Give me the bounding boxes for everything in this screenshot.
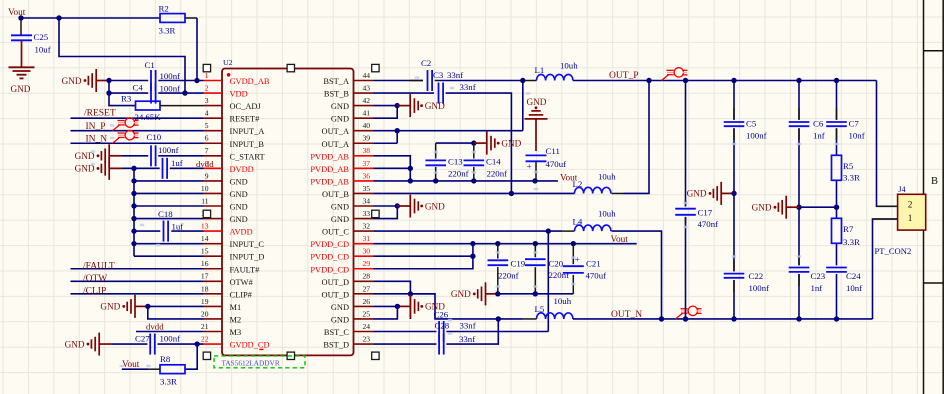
svg-text:GND: GND [62, 76, 82, 86]
capacitor C26 [434, 309, 449, 342]
wire IN_N row6 [71, 142, 204, 144]
pin 19 M1 left [201, 297, 241, 312]
pin 36 PVDD_AB right [310, 171, 373, 186]
inductor L1 [535, 65, 573, 81]
svg-text:GND: GND [331, 215, 349, 224]
svg-text:33nf: 33nf [459, 334, 475, 344]
svg-text:GVDD_CD: GVDD_CD [230, 341, 270, 350]
pin 5 INPUT_A left [204, 121, 265, 136]
wire OUT_B row to L2 [374, 192, 575, 194]
junction BST_B joins OUT_B [509, 191, 514, 196]
resistor R7 [832, 218, 854, 243]
svg-text:R3: R3 [121, 94, 132, 104]
directive on IN_N [113, 130, 139, 143]
svg-text:C4: C4 [133, 83, 144, 93]
endpoint marks [91, 76, 839, 367]
pin 10 GND left [201, 184, 248, 199]
pin 30 PVDD_CD right [310, 247, 373, 262]
capacitor C4 [133, 83, 156, 104]
pin 40 OUT_A right [322, 121, 374, 136]
pin 29 PVDD_CD right [310, 259, 373, 274]
svg-text:30: 30 [363, 247, 371, 256]
svg-text:44: 44 [363, 71, 371, 80]
svg-text:100nf: 100nf [749, 283, 770, 293]
junction L1 input node [520, 78, 525, 83]
svg-text:38: 38 [363, 146, 371, 155]
wire Vout to R8 [148, 368, 160, 370]
wire column C7 R5 R7 C24 [836, 81, 838, 120]
svg-text:42: 42 [363, 96, 371, 105]
capacitor C11 polarized [526, 146, 560, 161]
svg-text:100nf: 100nf [160, 333, 181, 343]
svg-text:33nf: 33nf [460, 82, 476, 92]
svg-text:PVDD_CD: PVDD_CD [310, 265, 349, 274]
svg-text:INPUT_A: INPUT_A [230, 127, 265, 136]
directive on OUT_N [676, 306, 702, 319]
svg-text:32: 32 [363, 222, 371, 231]
svg-text:B: B [931, 176, 938, 187]
wire OUT_C to BST_C riser [547, 231, 549, 331]
wire OUT_N to connector J4 pin 1 [873, 219, 898, 319]
pin 1 lead of J4 [873, 218, 898, 220]
svg-text:C11: C11 [546, 146, 560, 156]
op-amp U2 TAS5612LADDVR body [222, 69, 354, 356]
svg-text:10nf: 10nf [846, 283, 862, 293]
wire CLIP row18 [71, 293, 204, 295]
pin 43 BST_B right [324, 83, 374, 98]
pin 9 GND left [204, 171, 248, 186]
inductor L5 [535, 304, 573, 319]
inductor L4 lead [562, 230, 575, 232]
svg-text:INPUT_C: INPUT_C [230, 240, 265, 249]
svg-text:3.3R: 3.3R [160, 377, 177, 387]
wire row15 INPUT_D [134, 255, 204, 257]
svg-text:27: 27 [363, 284, 371, 293]
wire gnd bus vertical left [133, 168, 135, 256]
svg-text:CLIP#: CLIP# [230, 290, 253, 299]
wire IN_P row5 [71, 130, 204, 132]
svg-text:GND: GND [100, 302, 120, 312]
connector J4 [898, 185, 926, 230]
svg-text:GND: GND [230, 203, 248, 212]
svg-text:GND: GND [11, 84, 31, 94]
svg-text:C18: C18 [158, 209, 173, 219]
capacitor C12 1uf on DVDD [163, 158, 168, 179]
capacitor C7 [826, 119, 859, 129]
svg-text:/CLIP: /CLIP [83, 286, 106, 296]
wire Vout branch down to VDD row [59, 18, 185, 93]
pin 21 M3 left [201, 322, 241, 337]
svg-text:C25: C25 [34, 32, 49, 42]
svg-text:37: 37 [363, 159, 371, 168]
pin 17 OTW# left [201, 272, 254, 287]
capacitor C28 [435, 320, 450, 354]
inductor L2 [573, 179, 611, 194]
svg-text:IN_P: IN_P [86, 122, 106, 132]
junction OUT_C node [546, 228, 551, 233]
svg-text:C10: C10 [147, 132, 162, 142]
pin 22 GVDD_CD left [201, 334, 270, 349]
pin 7 C_START left [204, 146, 265, 161]
svg-text:19: 19 [201, 297, 209, 306]
svg-text:FAULT#: FAULT# [230, 265, 261, 274]
pin 38 PVDD_AB right [310, 146, 373, 161]
svg-text:C26: C26 [434, 309, 449, 319]
svg-text:GND: GND [331, 102, 349, 111]
svg-text:DVDD: DVDD [230, 165, 254, 174]
pin 26 GND right [331, 297, 374, 312]
wire row1 GVDD_AB [109, 80, 148, 82]
svg-text:100nf: 100nf [158, 145, 179, 155]
wire row2 VDD [109, 92, 148, 94]
junction C14 gnd [471, 140, 476, 145]
capacitor C19 [488, 258, 526, 268]
resistor R5 [832, 155, 854, 180]
svg-text:OUT_A: OUT_A [322, 127, 349, 136]
junction Vout rail [18, 15, 23, 20]
svg-text:L2: L2 [573, 179, 583, 189]
svg-text:OUT_B: OUT_B [322, 190, 349, 199]
svg-text:TAS5612LADDVR: TAS5612LADDVR [222, 358, 280, 367]
capacitor C22 [724, 271, 763, 281]
part marker tick bottom [259, 348, 263, 350]
svg-text:M3: M3 [230, 328, 242, 337]
capacitor C21 leads [572, 244, 574, 265]
svg-text:OUT_D: OUT_D [322, 278, 349, 287]
svg-text:GND: GND [230, 177, 248, 186]
power ground port pins 34 33 [397, 205, 410, 207]
svg-text:220nf: 220nf [487, 168, 508, 178]
pin 8 DVDD left [204, 159, 254, 174]
capacitor C27 [135, 333, 155, 354]
svg-text:21: 21 [201, 322, 209, 331]
selection box TAS5612LADDVR [214, 356, 305, 368]
svg-text:470nf: 470nf [698, 219, 719, 229]
svg-text:Vout: Vout [611, 235, 629, 245]
junction gnd mid column A [731, 191, 736, 196]
svg-text:17: 17 [201, 272, 209, 281]
junction PVDD_CD bus taps [495, 241, 500, 246]
svg-text:C13: C13 [448, 157, 463, 167]
junction pins 26 25 [395, 304, 400, 309]
capacitor C19 leads [497, 244, 499, 259]
wire C2 to OUT_A node [435, 80, 437, 82]
junction OUT_P rail taps [646, 78, 651, 83]
wire PVDD_CD pins 31 30 29 [374, 243, 473, 245]
svg-text:/OTW: /OTW [83, 274, 107, 284]
svg-text:470uf: 470uf [546, 159, 567, 169]
wire OUT_A pins 40 39 [374, 142, 398, 144]
svg-text:5: 5 [205, 121, 209, 130]
junction pins 42 41 [395, 103, 400, 108]
selection handles of U2 [203, 64, 210, 71]
svg-text:/RESET: /RESET [84, 109, 116, 119]
svg-text:10uh: 10uh [560, 61, 578, 71]
directive on OUT_P [662, 68, 688, 81]
pin 35 OUT_B right [322, 184, 374, 199]
inductor L4 [573, 217, 611, 232]
svg-text:Vout: Vout [122, 360, 140, 370]
inductor L1 leads [524, 80, 537, 82]
svg-text:PT_CON2: PT_CON2 [875, 246, 912, 256]
wire row14 INPUT_C [134, 243, 204, 245]
svg-text:L1: L1 [535, 65, 545, 75]
junction mid node R5 R7 [834, 205, 839, 210]
svg-text:INPUT_D: INPUT_D [230, 253, 265, 262]
svg-text:+: + [527, 163, 532, 173]
svg-text:BST_D: BST_D [323, 341, 349, 350]
pin 28 OUT_D right [322, 272, 374, 287]
svg-text:14: 14 [201, 234, 209, 243]
svg-text:3.3R: 3.3R [843, 237, 860, 247]
svg-text:C24: C24 [846, 271, 861, 281]
svg-text:OUT_P: OUT_P [609, 71, 639, 81]
ground earth symbol for C25 [9, 41, 35, 94]
svg-text:10uh: 10uh [598, 208, 616, 218]
svg-text:OC_ADJ: OC_ADJ [230, 102, 262, 111]
svg-text:C1: C1 [145, 60, 155, 70]
pin 15 INPUT_D left [201, 247, 265, 262]
svg-text:GND: GND [501, 138, 521, 148]
wire L4 to OUT_N [612, 231, 662, 319]
svg-text:OUT_A: OUT_A [322, 140, 349, 149]
part origin marker [227, 73, 231, 77]
wire row13 AVDD [134, 230, 160, 232]
wire L2 to OUT_P [612, 192, 624, 194]
pin 20 M2 left [201, 309, 241, 324]
junction R2 drop on row1 [194, 78, 199, 83]
svg-text:3: 3 [205, 96, 209, 105]
svg-text:R5: R5 [843, 161, 854, 171]
pin 18 CLIP# left [201, 284, 253, 299]
wire BST_C row to C26 [374, 331, 437, 333]
svg-text:220nf: 220nf [498, 270, 519, 280]
svg-text:INPUT_B: INPUT_B [230, 140, 265, 149]
junction C1 C4 gnd side [106, 78, 111, 83]
svg-text:GVDD_AB: GVDD_AB [230, 77, 270, 86]
svg-text:100nf: 100nf [160, 71, 181, 81]
capacitor C2 [421, 58, 432, 91]
capacitor C25 [11, 32, 51, 55]
wire OUT_D pins 28 27 [374, 281, 411, 319]
svg-text:1uf: 1uf [171, 158, 183, 168]
svg-text:C14: C14 [486, 157, 501, 167]
wire C3 to OUT_B node [446, 93, 512, 193]
wire OUT_P to connector J4 pin 2 [877, 81, 898, 207]
capacitor C24 [826, 268, 861, 281]
inductor L5 lead [523, 318, 537, 320]
svg-text:39: 39 [363, 134, 371, 143]
svg-text:40: 40 [363, 121, 371, 130]
svg-text:GND: GND [425, 201, 445, 211]
pin 25 GND right [331, 309, 374, 324]
svg-text:M1: M1 [230, 303, 242, 312]
pin 2 lead of J4 [877, 205, 898, 207]
svg-text:10uf: 10uf [35, 45, 51, 55]
capacitor C5 [724, 119, 757, 129]
pin 33 GND right [331, 209, 374, 224]
svg-text:24: 24 [363, 322, 371, 331]
svg-text:L4: L4 [573, 217, 583, 227]
capacitor C18 [158, 209, 173, 242]
wire column C5 C22 [733, 81, 735, 120]
svg-text:GND: GND [230, 215, 248, 224]
svg-text:100nf: 100nf [746, 131, 767, 141]
wire M1 M2 rows [148, 305, 204, 307]
wire BST_B row to C3 [374, 92, 435, 94]
pin 24 BST_C right [324, 322, 374, 337]
svg-text:PVDD_AB: PVDD_AB [310, 165, 349, 174]
svg-text:R8: R8 [160, 354, 171, 364]
svg-text:8: 8 [205, 159, 209, 168]
wire row12 GND [134, 218, 204, 220]
wire row9 GND [134, 180, 204, 182]
wire GND pins 42 41 [374, 106, 398, 119]
pin 12 GND left [201, 209, 248, 224]
capacitor C23 [789, 268, 826, 281]
wire C28 to OUT_D node [446, 319, 498, 344]
svg-text:J4: J4 [898, 185, 905, 194]
wire gnd link column B to C [799, 206, 837, 208]
svg-text:16: 16 [201, 259, 209, 268]
svg-text:10nf: 10nf [849, 131, 865, 141]
svg-text:BST_C: BST_C [324, 328, 350, 337]
svg-text:13: 13 [201, 222, 209, 231]
pin 41 GND right [331, 109, 374, 124]
svg-text:OTW#: OTW# [230, 278, 254, 287]
svg-text:GND: GND [425, 101, 445, 111]
svg-text:6: 6 [205, 134, 209, 143]
wire OUT_N rail [573, 318, 873, 320]
wire R8 riser [185, 344, 197, 369]
capacitor C13 [425, 157, 463, 167]
svg-text:dvdd: dvdd [146, 322, 164, 332]
pin 32 OUT_C right [322, 222, 374, 237]
svg-text:35: 35 [363, 184, 371, 193]
junction PVDD_CD pins [470, 241, 475, 246]
svg-text:C2: C2 [421, 58, 431, 68]
svg-text:GND: GND [65, 339, 85, 349]
wire PVDD_CD bus [473, 243, 637, 245]
svg-text:C22: C22 [749, 271, 764, 281]
wire row10 GND [134, 192, 204, 194]
svg-text:RESET#: RESET# [230, 115, 261, 124]
svg-text:C5: C5 [746, 119, 757, 129]
svg-text:20: 20 [201, 309, 209, 318]
svg-text:220nf: 220nf [549, 270, 570, 280]
svg-text:OUT_C: OUT_C [322, 228, 349, 237]
junction gnd mid column B [796, 205, 801, 210]
svg-text:GND: GND [230, 190, 248, 199]
svg-text:36: 36 [363, 171, 371, 180]
pin 13 AVDD left [201, 222, 253, 237]
pin 27 OUT_D right [322, 284, 374, 299]
svg-text:33: 33 [363, 209, 371, 218]
wire C17 column OUT_P to OUT_N [685, 81, 687, 207]
wire OUT_P rail [573, 80, 877, 82]
pin 42 GND right [331, 96, 374, 111]
wire gnd of C13 C14 [436, 142, 474, 144]
svg-text:31: 31 [363, 234, 371, 243]
svg-text:VDD: VDD [230, 90, 248, 99]
wire GND pins 34 33 [374, 206, 398, 219]
svg-text:100nf: 100nf [160, 84, 181, 94]
svg-text:1uf: 1uf [172, 221, 184, 231]
svg-text:GND: GND [451, 289, 471, 299]
wire dvdd row21 M3 [136, 331, 204, 333]
svg-text:BST_B: BST_B [324, 90, 350, 99]
svg-text:C_START: C_START [230, 152, 265, 161]
svg-text:C6: C6 [813, 119, 824, 129]
svg-text:2: 2 [908, 200, 913, 210]
svg-text:PVDD_AB: PVDD_AB [310, 152, 349, 161]
pin 34 GND right [331, 196, 374, 211]
svg-text:PVDD_CD: PVDD_CD [310, 253, 349, 262]
wire row7 C_START [122, 155, 148, 157]
svg-text:1: 1 [908, 214, 913, 224]
svg-text:23: 23 [363, 334, 371, 343]
junction PVDD_AB bus taps [433, 178, 438, 183]
svg-text:29: 29 [363, 259, 371, 268]
svg-text:41: 41 [363, 109, 371, 118]
svg-text:R7: R7 [843, 224, 854, 234]
svg-text:/FAULT: /FAULT [83, 261, 115, 271]
svg-text:1nf: 1nf [813, 131, 825, 141]
wire BST_A row to C2 [374, 80, 424, 82]
wire OUT_D jog down to L5 row [410, 294, 523, 319]
svg-text:PVDD_AB: PVDD_AB [310, 177, 349, 186]
wire row11 GND [134, 205, 204, 207]
wire RESET row4 [71, 117, 204, 119]
wire gnd bus C1 C4 [109, 81, 136, 106]
wire R2 to pin1 GVDD_AB [185, 17, 197, 19]
wire OTW row17 [71, 280, 204, 282]
power ground port above C11 [525, 97, 548, 151]
wire PVDD_AB pins 38 37 36 [374, 156, 411, 181]
pin 44 BST_A right [323, 71, 373, 86]
junction OUT_N rail taps [496, 316, 501, 321]
capacitor C14 leads [473, 143, 475, 158]
power ground port pins 42 41 [397, 105, 410, 107]
svg-text:9: 9 [205, 171, 209, 180]
svg-text:10uh: 10uh [598, 172, 616, 182]
capacitor C10 [147, 132, 162, 166]
svg-text:C17: C17 [698, 207, 713, 217]
wire row22 GVDD_CD [112, 343, 147, 345]
svg-text:470uf: 470uf [586, 270, 607, 280]
capacitor C3 [439, 83, 444, 104]
svg-text:C27: C27 [135, 333, 150, 343]
svg-text:18: 18 [201, 284, 209, 293]
svg-text:43: 43 [363, 83, 371, 92]
capacitor C25 leads [20, 18, 22, 35]
wire gnd of C19 C20 C21 [498, 293, 574, 295]
svg-text:U2: U2 [223, 58, 233, 67]
wire BST_D row to C28 [374, 343, 437, 345]
svg-text:GND: GND [331, 203, 349, 212]
svg-text:33nf: 33nf [460, 320, 476, 330]
pin 14 INPUT_C left [201, 234, 264, 249]
svg-text:GND: GND [331, 315, 349, 324]
junction OUT_A [395, 128, 400, 133]
wire FAULT row16 [71, 268, 204, 270]
svg-text:GND: GND [527, 97, 547, 107]
pin 23 BST_D right [323, 334, 373, 349]
svg-text:220nf: 220nf [448, 168, 469, 178]
svg-text:2: 2 [205, 83, 209, 92]
svg-text:26: 26 [363, 297, 371, 306]
svg-text:3.3R: 3.3R [159, 26, 176, 36]
